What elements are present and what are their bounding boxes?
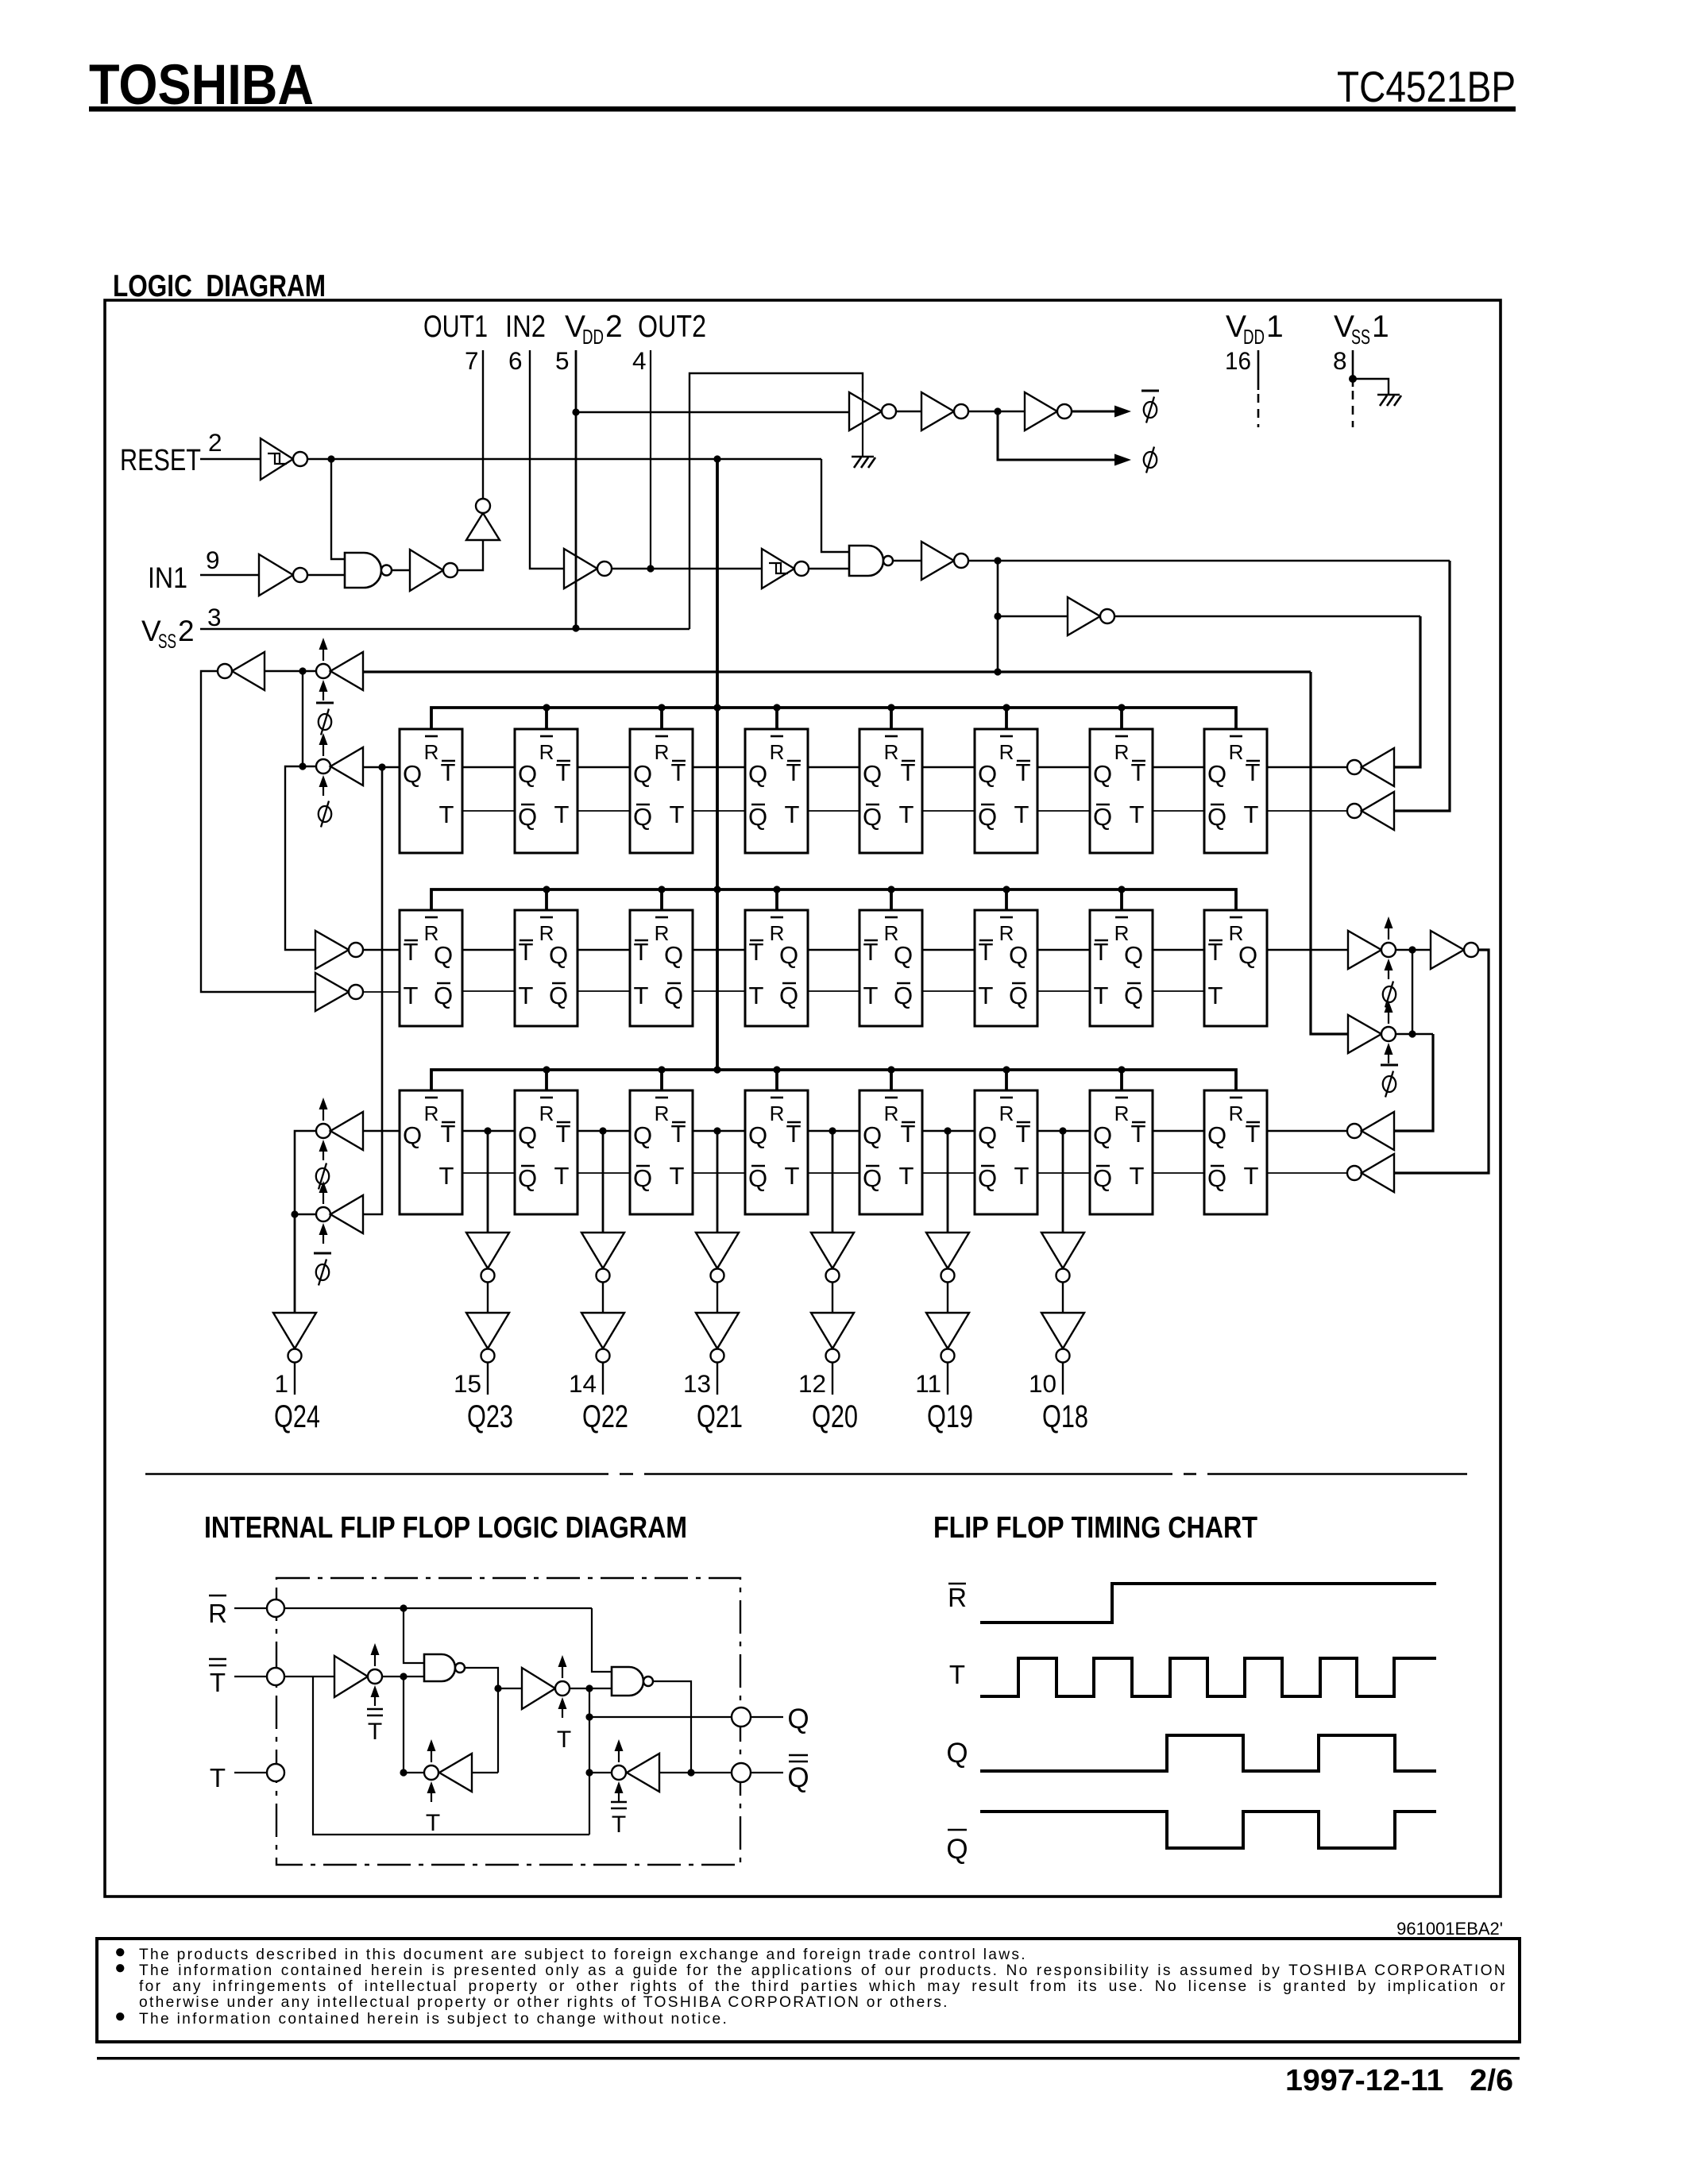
label phi row2 buffer	[1383, 982, 1396, 1008]
inverter output Q23 second	[466, 1313, 509, 1363]
inverter output Q19 first	[926, 1233, 969, 1313]
inverter row2 output	[1431, 931, 1478, 969]
pin label VSS1	[1334, 310, 1389, 349]
wire row2 lower interconnects	[462, 990, 1204, 992]
pin number 4	[632, 346, 647, 375]
flip-flop row1 FF3	[630, 729, 693, 853]
wire NAND2 to inverter	[893, 560, 921, 561]
svg-text:1: 1	[274, 1369, 288, 1398]
svg-text:TC4521BP: TC4521BP	[1337, 62, 1516, 111]
date and page number	[1285, 2064, 1513, 2097]
label phi-bar row2 buffer	[1381, 1065, 1398, 1098]
wire row2 inverter output to row3 lower feedback	[1394, 950, 1489, 1173]
legal text bullet 3	[114, 2008, 128, 2024]
svg-text:SS: SS	[1351, 325, 1370, 349]
pin label VDD2	[565, 310, 623, 349]
inverter output Q20 second	[811, 1313, 854, 1363]
flip-flop row2 FF2	[515, 910, 577, 1026]
svg-text:1: 1	[1266, 310, 1284, 344]
heading FLIP FLOP TIMING CHART	[933, 1511, 1257, 1545]
wire VSS1 to ground	[1353, 379, 1389, 394]
svg-text:2: 2	[178, 615, 195, 647]
svg-text:8: 8	[1333, 346, 1347, 375]
wire center reset distribution vertical	[716, 459, 719, 1070]
clocked buffer row2 phi-bar	[1311, 1001, 1396, 1063]
flip-flop row3 FF2	[515, 1090, 577, 1214]
wire T-bar input	[234, 1676, 267, 1677]
wire Q output	[585, 1713, 731, 1720]
pin number 1	[274, 1369, 288, 1398]
svg-text:Q: Q	[787, 1762, 809, 1793]
wire row3 lower interconnects	[462, 1172, 1204, 1174]
label phi-bar row3 left	[314, 1253, 331, 1286]
pin number 2	[208, 428, 222, 457]
pin number 14	[569, 1369, 597, 1398]
clocked inverter row3 left phi	[316, 1098, 400, 1160]
wire RESET input	[200, 458, 261, 460]
NAND slave latch	[612, 1667, 653, 1696]
wire NAND to inverter	[392, 569, 410, 571]
svg-text:2: 2	[208, 428, 222, 457]
inverter row3 right upper feedback	[1267, 1112, 1394, 1150]
svg-text:961001EBA2': 961001EBA2'	[1396, 1919, 1503, 1939]
junction RESET to center distribution line	[713, 455, 720, 462]
inverter row2 lower input	[315, 973, 400, 1011]
wire output pin 1	[294, 1363, 295, 1395]
svg-text:5: 5	[555, 346, 570, 375]
inverter after NAND2	[921, 542, 968, 580]
wire row2 buffer output node	[1396, 946, 1431, 1034]
label phi-bar row1 left	[316, 703, 334, 735]
pin number 12	[798, 1369, 826, 1398]
inverter row3 right lower feedback	[1267, 1154, 1394, 1192]
pin label OUT2	[638, 310, 706, 344]
flip-flop row3 FF1	[400, 1090, 462, 1214]
svg-text:4: 4	[632, 346, 647, 375]
wire IN1 inverter to NAND	[307, 574, 345, 576]
pin number 8	[1333, 346, 1347, 375]
svg-text:Q21: Q21	[697, 1399, 743, 1434]
pin 16 stub wire	[1257, 350, 1260, 427]
legal text bullet 2	[114, 1960, 128, 1976]
clocked buffer row2 phi	[1348, 916, 1396, 979]
terminal T	[267, 1764, 284, 1781]
wire reset rail row2	[431, 886, 1236, 910]
wire R-bar input	[234, 1607, 267, 1609]
svg-text:Q: Q	[946, 1834, 968, 1865]
svg-text:T: T	[557, 1727, 571, 1753]
inverter phi-prime-bar	[998, 597, 1114, 635]
wire row2 upper interconnects	[462, 949, 1204, 951]
pin number 6	[508, 346, 523, 375]
wire chain 2 to 3 with phi tap	[968, 407, 1025, 415]
inverter to OUT1 (up)	[466, 499, 500, 540]
wire R-bar net	[284, 1604, 612, 1672]
wire VSS2 net	[200, 373, 863, 629]
wire slave feedback input	[585, 1769, 731, 1776]
wire row2 FF8 Q to buffer	[1267, 949, 1348, 951]
wire clock line to row1 left chain and row2 buffer	[362, 668, 1348, 1034]
schmitt inverter on RESET	[261, 438, 307, 480]
wire output pin 12	[832, 1363, 833, 1395]
wire to OUT1 buffer	[458, 540, 483, 570]
flip-flop row2 FF8	[1204, 910, 1267, 1026]
wire phi-prime inverted branch	[994, 561, 1001, 672]
pin number 13	[683, 1369, 711, 1398]
svg-text:7: 7	[465, 346, 479, 375]
TOSHIBA logo	[89, 54, 314, 117]
flip-flop row3 FF3	[630, 1090, 693, 1214]
wire phi-bar output with arrow	[1072, 406, 1131, 418]
svg-text:16: 16	[1225, 346, 1251, 375]
inverter output Q24 second	[273, 1313, 316, 1363]
pin number 11	[915, 1369, 941, 1398]
input label IN1	[148, 561, 187, 594]
wire row3 output taps	[484, 1127, 1066, 1233]
inverter output Q22 second	[581, 1313, 624, 1363]
svg-text:IN1: IN1	[148, 561, 187, 594]
wire row3 mux node to Q24 chain	[291, 1210, 316, 1313]
wire row1 upper interconnects	[462, 766, 1204, 769]
schmitt inverter clock path	[762, 549, 809, 588]
flip-flop row2 FF3	[630, 910, 693, 1026]
inverter output Q20 first	[811, 1233, 854, 1313]
inverter output Q22 first	[581, 1233, 624, 1313]
inverter clock chain 3	[1025, 392, 1072, 430]
label phi row1 left	[319, 801, 331, 828]
internal FF boundary dash-dot box	[276, 1578, 740, 1865]
pin number 9	[206, 546, 220, 574]
flip-flop row1 FF5	[859, 729, 922, 853]
flip-flop row2 FF6	[975, 910, 1037, 1026]
wire phi-prime-bar to row1 right feedback	[1114, 616, 1420, 767]
label phi row3 left	[316, 1163, 329, 1190]
pin number 7	[465, 346, 479, 375]
svg-text:Q23: Q23	[467, 1399, 513, 1434]
flip-flop row3 FF7	[1090, 1090, 1153, 1214]
wire T-bar to master inverter and feedback loop	[284, 1677, 589, 1835]
diagram frame	[105, 300, 1501, 1897]
wire VDD2 to clock chain	[572, 408, 849, 415]
junction RESET at inverter chain	[327, 455, 345, 559]
pin label VDD1	[1226, 310, 1284, 349]
clocked inverter clock chain 1	[849, 392, 896, 430]
inverter IN2 (between VDD2 and VSS2)	[564, 549, 612, 588]
svg-text:Q: Q	[946, 1738, 968, 1769]
clocked inverter slave feedback	[612, 1739, 659, 1802]
input label RESET	[120, 444, 201, 477]
svg-text:Q18: Q18	[1042, 1399, 1088, 1434]
section divider line	[145, 1473, 1467, 1476]
wire phi-prime net to row1 right feedback	[968, 557, 1450, 811]
wire master latch output	[465, 1668, 522, 1692]
flip-flop row1 FF8	[1204, 729, 1267, 853]
timing label Q	[946, 1738, 968, 1769]
label phi-bar output	[1141, 391, 1159, 423]
timing label R-bar	[948, 1583, 967, 1612]
label T double bar master clock	[367, 1709, 383, 1745]
wire slave latch output	[653, 1681, 695, 1777]
flip-flop row1 FF7	[1090, 729, 1153, 853]
wire OUT2 pin 4 vertical	[647, 350, 654, 573]
pin 8 stub wire and dashed continuation	[1352, 350, 1354, 427]
wire chain 1 to 2	[896, 411, 921, 412]
output label Q19	[927, 1399, 973, 1434]
svg-text:14: 14	[569, 1369, 597, 1398]
wire slave node	[570, 1684, 612, 1835]
inverter row1 right lower feedback	[1267, 792, 1394, 830]
ground symbol VSS1	[1377, 395, 1401, 406]
inverter IN1	[259, 554, 307, 596]
svg-text:DD: DD	[582, 325, 604, 349]
svg-text:9: 9	[206, 546, 220, 574]
wire master feedback	[400, 1688, 498, 1777]
inverter after NAND	[410, 550, 458, 591]
document code 961001EBA2	[1396, 1919, 1503, 1939]
inverter clock chain 2	[921, 392, 968, 430]
svg-text:T: T	[949, 1660, 965, 1689]
flip-flop row1 FF4	[745, 729, 808, 853]
svg-text:13: 13	[683, 1369, 711, 1398]
wire IN2 inverter output	[612, 568, 762, 569]
inverter output Q21 second	[696, 1313, 739, 1363]
header rule	[89, 106, 1516, 112]
ground symbol below clock inverter	[852, 457, 875, 468]
waveform R-bar	[980, 1584, 1436, 1623]
svg-text:Q19: Q19	[927, 1399, 973, 1434]
svg-text:R: R	[948, 1583, 967, 1612]
NAND master latch	[424, 1654, 465, 1681]
output label Q18	[1042, 1399, 1088, 1434]
clocked inverter slave input	[522, 1655, 570, 1718]
waveform T	[980, 1658, 1436, 1696]
svg-text:INTERNAL FLIP FLOP LOGIC DIAGR: INTERNAL FLIP FLOP LOGIC DIAGRAM	[204, 1511, 687, 1545]
clocked inverter row3 left phi-bar	[316, 1181, 363, 1244]
svg-text:6: 6	[508, 346, 523, 375]
svg-text:11: 11	[915, 1369, 941, 1398]
svg-text:T: T	[368, 1719, 382, 1745]
inverter row2 upper input	[315, 931, 400, 969]
flip-flop row1 FF1	[400, 729, 462, 853]
wire reset rail row3	[431, 1066, 1236, 1090]
input label R-bar	[208, 1596, 227, 1628]
wire OUT1 pin 7 vertical	[482, 350, 484, 499]
svg-text:Q22: Q22	[582, 1399, 628, 1434]
svg-text:Q24: Q24	[274, 1399, 320, 1434]
inverter output Q19 second	[926, 1313, 969, 1363]
pin number 16	[1225, 346, 1251, 375]
output label Q24	[274, 1399, 320, 1434]
timing label Q double bar	[946, 1830, 968, 1865]
clocked inverter row1 left phi-bar	[316, 638, 363, 700]
legal notice box	[97, 1939, 1520, 2042]
svg-text:R: R	[208, 1599, 227, 1628]
flip-flop row3 FF8	[1204, 1090, 1267, 1214]
wire row3 upper interconnects	[462, 1130, 1204, 1133]
flip-flop row2 FF7	[1090, 910, 1153, 1026]
wire row1 left output to row2 lower inverter	[201, 671, 315, 992]
wire master node	[382, 1673, 424, 1773]
output label Q22	[582, 1399, 628, 1434]
NAND gate clock	[849, 546, 893, 576]
label T double bar slave feedback clock	[611, 1802, 627, 1838]
pin number 5	[555, 346, 570, 375]
terminal Q	[732, 1707, 783, 1727]
terminal Q-bar	[732, 1763, 783, 1782]
svg-text:Q: Q	[787, 1704, 809, 1734]
pin number 10	[1029, 1369, 1056, 1398]
flip-flop row3 FF5	[859, 1090, 922, 1214]
svg-text:Q20: Q20	[812, 1399, 858, 1434]
pin label OUT1	[423, 310, 488, 344]
wire row1 clocked inverter output to row2 upper inverter	[285, 766, 316, 950]
input label T double bar	[209, 1659, 226, 1697]
svg-text:15: 15	[454, 1369, 481, 1398]
heading LOGIC DIAGRAM	[113, 269, 326, 303]
output label Q23	[467, 1399, 513, 1434]
pin number 15	[454, 1369, 481, 1398]
wire through inverter to ground	[862, 392, 863, 456]
svg-text:T: T	[612, 1812, 626, 1838]
waveform Q-bar	[980, 1812, 1436, 1848]
svg-text:10: 10	[1029, 1369, 1056, 1398]
wire row2 buffer2 output to row3 upper feedback	[1394, 1030, 1433, 1131]
svg-text:RESET: RESET	[120, 444, 201, 477]
inverter row1 right upper feedback	[1267, 748, 1394, 786]
wire RESET net to NAND and distribution	[307, 459, 849, 552]
svg-text:FLIP FLOP TIMING CHART: FLIP FLOP TIMING CHART	[933, 1511, 1257, 1545]
input label VSS2	[141, 615, 195, 653]
flip-flop row3 FF6	[975, 1090, 1037, 1214]
flip-flop row3 FF4	[745, 1090, 808, 1214]
svg-text:12: 12	[798, 1369, 826, 1398]
svg-text:SS: SS	[158, 631, 176, 653]
pin number 3	[207, 603, 222, 631]
svg-text:3: 3	[207, 603, 222, 631]
inverter output Q21 first	[696, 1233, 739, 1313]
svg-text:OUT1: OUT1	[423, 310, 488, 344]
wire reset rail row1	[431, 704, 1236, 729]
waveform Q	[980, 1735, 1436, 1771]
wire row1 mux node vertical	[299, 671, 306, 770]
inverter output Q18 second	[1041, 1313, 1084, 1363]
pin label IN2	[505, 310, 546, 344]
svg-text:T: T	[210, 1668, 226, 1697]
clocked inverter master feedback	[424, 1739, 472, 1802]
flip-flop row1 FF6	[975, 729, 1037, 853]
wire output pin 15	[487, 1363, 489, 1395]
wire IN2 pin 6 vertical	[530, 350, 564, 569]
wire T input	[234, 1772, 267, 1773]
terminal T-bar	[267, 1668, 284, 1685]
svg-text:IN2: IN2	[505, 310, 546, 344]
timing label T	[949, 1660, 965, 1689]
wire output pin 11	[947, 1363, 948, 1395]
clocked inverter row1 left phi	[316, 733, 363, 796]
wire phi output with arrow	[998, 411, 1131, 466]
svg-text:1997-12-11 2/6: 1997-12-11 2/6	[1285, 2064, 1513, 2097]
part number TC4521BP	[1337, 62, 1516, 111]
footer rule	[97, 2057, 1520, 2060]
inverter output Q23 first	[466, 1233, 509, 1313]
node VSS1 junction	[1349, 375, 1357, 383]
legal text bullet 1	[114, 1944, 128, 1960]
svg-text:1: 1	[1372, 310, 1389, 344]
flip-flop row2 FF5	[859, 910, 922, 1026]
wire VDD2 pin 5 vertical	[575, 350, 577, 627]
wire output pin 13	[717, 1363, 718, 1395]
output label Q double bar	[787, 1755, 809, 1793]
wire output pin 14	[602, 1363, 604, 1395]
wire row1 left node	[265, 667, 316, 674]
svg-text:DD: DD	[1243, 325, 1265, 349]
label T slave clock	[557, 1727, 571, 1753]
wire schmitt to NAND2	[809, 568, 849, 569]
output label Q	[787, 1704, 809, 1734]
wire row1 lower interconnects	[462, 810, 1204, 812]
wire output pin 10	[1062, 1363, 1064, 1395]
wire row1 FF1 Q to clocked inverter	[363, 763, 400, 770]
clocked inverter master input	[334, 1643, 382, 1706]
svg-text:T: T	[426, 1810, 440, 1836]
terminal R-bar	[267, 1599, 284, 1617]
output label Q21	[697, 1399, 743, 1434]
output label Q20	[812, 1399, 858, 1434]
flip-flop row2 FF4	[745, 910, 808, 1026]
inverter row1 left output	[218, 652, 265, 690]
label T master feedback clock	[426, 1810, 440, 1836]
svg-text:2: 2	[605, 310, 623, 344]
svg-text:T: T	[210, 1763, 226, 1792]
heading INTERNAL FLIP FLOP LOGIC DIAGRAM	[204, 1511, 687, 1545]
inverter output Q18 first	[1041, 1233, 1084, 1313]
flip-flop row2 FF1	[400, 910, 462, 1026]
svg-text:LOGIC DIAGRAM: LOGIC DIAGRAM	[113, 269, 326, 303]
input label T	[210, 1763, 226, 1792]
svg-text:OUT2: OUT2	[638, 310, 706, 344]
wire row3 upper clocked inverter output	[295, 1131, 316, 1214]
junction VDD2 inverter at VSS2 line	[572, 624, 579, 631]
wire IN1 input	[200, 574, 259, 576]
NAND gate oscillator	[345, 553, 392, 588]
flip-flop row1 FF2	[515, 729, 577, 853]
label phi output	[1144, 447, 1157, 473]
wire row1 FF1 Q down to row3 lower clocked inverter	[363, 767, 382, 1214]
